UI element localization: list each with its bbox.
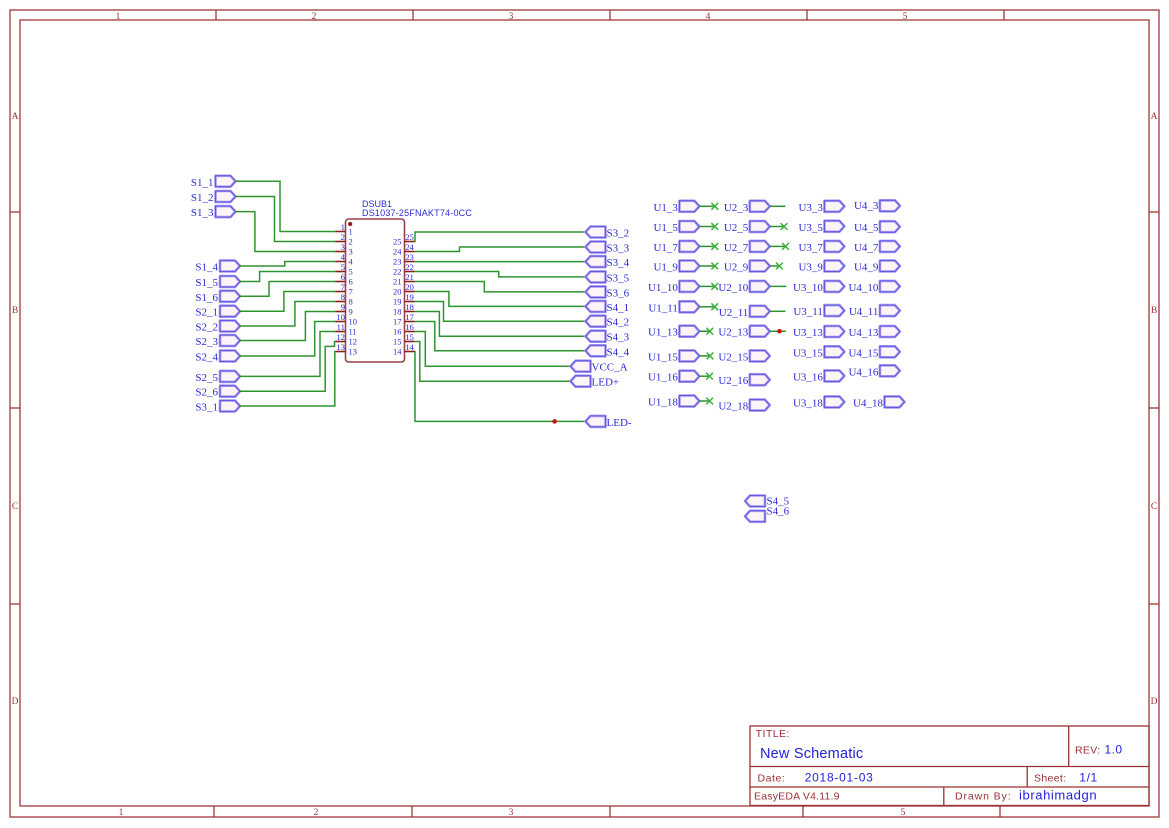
svg-text:S4_4: S4_4	[607, 346, 630, 358]
net flag U2_11	[719, 306, 770, 319]
svg-text:U4_7: U4_7	[854, 242, 879, 254]
svg-text:4: 4	[706, 12, 711, 22]
svg-text:S2_5: S2_5	[195, 372, 218, 384]
net flag LED-	[586, 416, 632, 429]
net flag S1_1	[191, 176, 236, 189]
svg-text:S2_4: S2_4	[195, 352, 218, 364]
svg-text:D: D	[1151, 697, 1158, 707]
wire U2_7 stub	[770, 245, 786, 247]
svg-text:U4_16: U4_16	[848, 366, 878, 378]
net flag U2_18	[718, 400, 769, 413]
svg-text:U3_7: U3_7	[798, 242, 823, 254]
svg-text:U3_5: U3_5	[798, 222, 823, 234]
net flag VCC_A	[571, 361, 628, 374]
no-connect flag U1_10	[711, 283, 718, 290]
wire U1_10 no-connect stub	[699, 285, 714, 287]
no-connect flag U1_18	[706, 398, 713, 405]
net flag U4_7	[854, 241, 900, 254]
svg-text:B: B	[1151, 306, 1157, 316]
net flag S1_2	[191, 191, 236, 204]
svg-text:17: 17	[393, 317, 402, 327]
net flag U4_15	[848, 346, 899, 359]
svg-text:19: 19	[393, 297, 402, 307]
wire S3_1 to pin 13	[240, 352, 336, 407]
net flag S4_2	[586, 316, 630, 329]
net flag S2_3	[195, 335, 240, 348]
net flag U1_5	[653, 221, 699, 234]
svg-text:S3_5: S3_5	[607, 272, 630, 284]
svg-text:14: 14	[393, 347, 402, 357]
wire S2_6 to pin 12	[240, 342, 336, 392]
net flag U3_3	[798, 201, 844, 214]
wire pin 17 to S4_4	[415, 322, 586, 351]
svg-text:8: 8	[349, 297, 353, 307]
net flag U4_9	[854, 261, 900, 274]
svg-text:2: 2	[312, 12, 317, 22]
svg-text:10: 10	[336, 312, 345, 322]
net flag U1_9	[653, 261, 699, 274]
svg-text:S4_1: S4_1	[607, 302, 630, 314]
svg-text:U4_11: U4_11	[849, 306, 879, 318]
net flag LED+	[571, 376, 620, 389]
net flag U4_5	[854, 221, 900, 234]
svg-text:15: 15	[393, 337, 402, 347]
svg-text:U4_5: U4_5	[854, 222, 879, 234]
svg-text:D: D	[12, 697, 19, 707]
svg-text:1: 1	[341, 222, 345, 232]
svg-text:A: A	[1151, 112, 1158, 122]
net flag S3_4	[586, 256, 630, 269]
wire U1_16 no-connect stub	[699, 375, 709, 377]
wire pin 16 to VCC_A	[415, 332, 571, 367]
wire S1_3 to pin 3	[236, 212, 336, 252]
svg-text:1.0: 1.0	[1105, 743, 1123, 757]
DSUB1 pin 5	[336, 262, 353, 277]
DSUB1 pin 4	[336, 252, 354, 267]
svg-text:S4_2: S4_2	[607, 317, 630, 329]
no-connect flag U1_11	[711, 303, 718, 310]
title block	[750, 726, 1149, 806]
wire U2_3 stub	[770, 205, 786, 207]
svg-text:U1_9: U1_9	[653, 262, 678, 274]
wire U2_11 stub	[770, 310, 786, 312]
no-connect flag U2_5	[781, 223, 788, 230]
wire S1_6 to pin 6	[240, 282, 336, 297]
net flag U3_16	[793, 370, 844, 383]
svg-text:13: 13	[349, 347, 358, 357]
svg-text:U3_10: U3_10	[793, 282, 823, 294]
no-connect flag U1_16	[706, 373, 713, 380]
svg-text:U1_16: U1_16	[648, 372, 678, 384]
svg-text:B: B	[12, 306, 18, 316]
svg-text:5: 5	[903, 12, 908, 22]
net flag S3_3	[586, 242, 630, 255]
net flag S3_2	[586, 227, 630, 240]
svg-text:U3_16: U3_16	[793, 371, 823, 383]
svg-text:S3_6: S3_6	[607, 287, 630, 299]
net flag S4_3	[586, 331, 630, 344]
DSUB1 pin 10	[336, 312, 358, 327]
connector DSUB1	[346, 219, 405, 362]
svg-text:A: A	[12, 112, 19, 122]
svg-text:S1_6: S1_6	[195, 292, 218, 304]
svg-text:U2_9: U2_9	[724, 262, 749, 274]
svg-text:S2_1: S2_1	[195, 307, 218, 319]
DSUB1 pin 21	[393, 272, 415, 287]
svg-text:4: 4	[341, 252, 346, 262]
svg-text:2018-01-03: 2018-01-03	[805, 770, 874, 784]
net flag S4_4	[586, 345, 630, 358]
net flag S2_2	[195, 321, 240, 334]
wire pin 23 to S3_4	[415, 261, 586, 263]
svg-text:S2_6: S2_6	[195, 387, 218, 399]
net flag S2_4	[195, 351, 240, 364]
no-connect flag U1_13	[706, 328, 713, 335]
net flag S2_5	[195, 371, 240, 384]
svg-text:U1_11: U1_11	[648, 302, 678, 314]
wire S1_5 to pin 5	[240, 272, 336, 282]
net flag U3_9	[798, 261, 844, 274]
svg-text:2: 2	[341, 232, 345, 242]
wire U2_9 stub	[770, 265, 780, 267]
svg-text:U2_3: U2_3	[724, 202, 749, 214]
svg-text:25: 25	[405, 232, 414, 242]
wire S1_4 to pin 4	[240, 262, 336, 267]
svg-text:U1_10: U1_10	[648, 282, 678, 294]
net flag U2_13	[718, 326, 769, 339]
net flag U4_10	[848, 281, 899, 294]
wire pin 20 to S4_1	[415, 292, 586, 307]
DSUB1 pin 11	[336, 322, 357, 337]
no-connect flag U2_7	[782, 243, 789, 250]
net flag U2_3	[724, 201, 770, 214]
svg-text:U1_3: U1_3	[653, 202, 678, 214]
svg-text:U4_3: U4_3	[854, 200, 879, 212]
wire S1_2 to pin 2	[236, 197, 336, 242]
wire U2_5 stub	[770, 226, 784, 228]
wire U2_13 stub	[770, 330, 786, 332]
net flag U3_5	[798, 221, 844, 234]
net flag U1_3	[653, 201, 699, 214]
svg-text:5: 5	[901, 808, 906, 818]
svg-text:16: 16	[393, 327, 402, 337]
net flag U3_18	[793, 396, 844, 409]
svg-text:S1_4: S1_4	[195, 262, 218, 274]
svg-text:6: 6	[341, 272, 346, 282]
wire U1_15 no-connect stub	[699, 355, 710, 357]
svg-text:S1_2: S1_2	[191, 192, 214, 204]
svg-text:U3_13: U3_13	[793, 327, 823, 339]
DSUB1 pin 16	[393, 322, 415, 337]
svg-text:3: 3	[349, 247, 353, 257]
net flag U4_13	[848, 326, 899, 339]
svg-text:1/1: 1/1	[1079, 770, 1097, 784]
no-connect flag U1_5	[711, 223, 718, 230]
DSUB1 pin 8	[336, 292, 353, 307]
svg-text:10: 10	[349, 317, 358, 327]
svg-text:C: C	[1151, 502, 1157, 512]
svg-text:S4_3: S4_3	[607, 332, 630, 344]
svg-text:U4_10: U4_10	[848, 282, 878, 294]
svg-text:U3_18: U3_18	[793, 397, 823, 409]
svg-text:LED+: LED+	[592, 377, 620, 389]
svg-text:21: 21	[393, 277, 402, 287]
DSUB1 pin 23	[393, 252, 415, 267]
svg-text:3: 3	[341, 242, 345, 252]
svg-text:S3_3: S3_3	[607, 243, 630, 255]
svg-text:U3_9: U3_9	[798, 262, 823, 274]
wire U1_18 no-connect stub	[699, 400, 709, 402]
svg-text:S4_6: S4_6	[767, 506, 790, 518]
wire pin 21 to S3_6	[415, 282, 586, 292]
wire pin 25 to S3_2	[415, 232, 586, 242]
svg-text:9: 9	[341, 302, 345, 312]
svg-text:U1_15: U1_15	[648, 351, 678, 363]
svg-text:18: 18	[393, 307, 402, 317]
svg-text:U2_10: U2_10	[718, 282, 748, 294]
svg-text:20: 20	[405, 282, 414, 292]
wire S2_3 to pin 9	[240, 312, 336, 341]
svg-text:U2_7: U2_7	[724, 242, 749, 254]
svg-text:U2_13: U2_13	[718, 327, 748, 339]
svg-text:U2_18: U2_18	[718, 401, 748, 413]
svg-text:13: 13	[336, 342, 345, 352]
wire pin 24 to S3_3	[415, 247, 586, 252]
svg-text:S1_3: S1_3	[191, 207, 214, 219]
DSUB1 pin 22	[393, 262, 415, 277]
net flag U2_7	[724, 241, 770, 254]
svg-text:2: 2	[314, 808, 319, 818]
DSUB1 pin 1	[336, 222, 353, 237]
wire S2_4 to pin 10	[240, 322, 336, 357]
svg-text:U3_3: U3_3	[798, 202, 823, 214]
svg-text:U1_13: U1_13	[648, 327, 678, 339]
no-connect flag U1_7	[711, 243, 718, 250]
net flag U1_11	[648, 301, 699, 314]
no-connect flag U1_9	[711, 263, 718, 270]
net flag U1_16	[648, 371, 699, 384]
svg-text:9: 9	[349, 307, 353, 317]
svg-text:U4_13: U4_13	[848, 327, 878, 339]
svg-text:14: 14	[405, 342, 414, 352]
svg-text:Drawn By:: Drawn By:	[955, 790, 1012, 802]
svg-text:1: 1	[116, 12, 121, 22]
no-connect flag U1_3	[711, 203, 718, 210]
svg-text:Sheet:: Sheet:	[1034, 772, 1066, 784]
wire U1_9 no-connect stub	[699, 265, 714, 267]
net flag S4_6	[745, 506, 790, 522]
svg-text:5: 5	[349, 267, 353, 277]
DSUB1 pin 20	[393, 282, 415, 297]
DSUB1 pin 13	[336, 342, 358, 357]
svg-text:Date:: Date:	[758, 772, 786, 784]
DSUB1 pin-1 marker dot	[348, 222, 352, 226]
svg-text:16: 16	[405, 322, 414, 332]
net flag U1_13	[648, 326, 699, 339]
net flag U1_15	[648, 350, 699, 363]
svg-text:U2_16: U2_16	[718, 375, 748, 387]
DSUB1 pin 17	[393, 312, 415, 327]
DSUB1 pin 7	[336, 282, 353, 297]
DSUB1 pin 25	[393, 232, 415, 247]
wire pin 22 to S3_5	[415, 272, 586, 277]
wire U1_13 no-connect stub	[699, 330, 709, 332]
svg-text:21: 21	[405, 272, 414, 282]
DSUB1 pin 15	[393, 332, 415, 347]
svg-text:12: 12	[336, 332, 345, 342]
net flag U3_15	[793, 346, 844, 359]
DSUB1 pin 6	[336, 272, 353, 287]
wire pin 18 to S4_3	[415, 312, 586, 337]
svg-text:22: 22	[393, 267, 402, 277]
net flag S1_4	[195, 261, 240, 274]
svg-text:U3_11: U3_11	[793, 306, 823, 318]
svg-text:1: 1	[119, 808, 124, 818]
net flag U4_18	[853, 396, 904, 409]
svg-text:25: 25	[393, 237, 402, 247]
DSUB1 pin 14	[393, 342, 415, 357]
svg-text:12: 12	[349, 337, 358, 347]
svg-text:24: 24	[405, 242, 414, 252]
svg-text:1: 1	[349, 227, 353, 237]
svg-text:3: 3	[509, 12, 514, 22]
wire pin 15 to LED+	[415, 342, 571, 382]
svg-text:REV:: REV:	[1075, 745, 1101, 757]
svg-text:VCC_A: VCC_A	[592, 362, 628, 374]
svg-text:3: 3	[509, 808, 514, 818]
svg-text:LED-: LED-	[607, 417, 632, 429]
net flag U2_9	[724, 261, 770, 274]
svg-text:U1_5: U1_5	[653, 222, 678, 234]
svg-text:EasyEDA V4.11.9: EasyEDA V4.11.9	[754, 790, 840, 802]
svg-text:S2_3: S2_3	[195, 336, 218, 348]
svg-text:S2_2: S2_2	[195, 322, 218, 334]
net flag S1_5	[195, 276, 240, 289]
net flag S3_1	[195, 401, 240, 414]
svg-text:U2_15: U2_15	[718, 351, 748, 363]
svg-text:TITLE:: TITLE:	[756, 728, 790, 740]
net flag U4_16	[848, 365, 899, 378]
DSUB1 pin 2	[336, 232, 353, 247]
net flag U2_5	[724, 221, 770, 234]
svg-text:22: 22	[405, 262, 414, 272]
net flag S4_5	[745, 496, 790, 508]
net flag U2_16	[718, 374, 769, 387]
wire S2_1 to pin 7	[240, 292, 336, 312]
wire U1_7 no-connect stub	[699, 245, 714, 247]
DSUB1 pin 19	[393, 292, 415, 307]
net flag S3_6	[586, 286, 630, 299]
svg-text:S1_1: S1_1	[191, 177, 214, 189]
svg-text:15: 15	[405, 332, 414, 342]
net flag U2_10	[718, 281, 769, 294]
svg-text:S3_1: S3_1	[195, 402, 218, 414]
net flag U4_3	[854, 200, 900, 212]
svg-text:U4_18: U4_18	[853, 397, 883, 409]
net flag U2_15	[718, 350, 769, 363]
net flag U3_7	[798, 241, 844, 254]
wire S1_1 to pin 1	[236, 181, 336, 231]
net flag S2_1	[195, 306, 240, 319]
svg-text:5: 5	[341, 262, 345, 272]
net flag U1_7	[653, 241, 699, 254]
junction dot on U2_13 wire	[777, 329, 782, 334]
svg-text:S3_2: S3_2	[607, 228, 630, 240]
wire pin 19 to S4_2	[415, 302, 586, 322]
svg-text:2: 2	[349, 237, 353, 247]
DSUB1 pin 9	[336, 302, 353, 317]
svg-text:18: 18	[405, 302, 414, 312]
svg-text:6: 6	[349, 277, 353, 287]
DSUB1 pin 3	[336, 242, 353, 257]
svg-text:23: 23	[393, 257, 402, 267]
svg-text:U1_7: U1_7	[653, 242, 678, 254]
wire U1_5 no-connect stub	[699, 226, 714, 228]
svg-text:11: 11	[337, 322, 345, 332]
svg-text:17: 17	[405, 312, 414, 322]
net flag S1_3	[191, 206, 236, 219]
net flag S2_6	[195, 386, 240, 399]
net flag U3_10	[793, 281, 844, 294]
net flag U4_11	[849, 305, 900, 318]
svg-text:S1_5: S1_5	[195, 277, 218, 289]
svg-text:DS1037-25FNAKT74-0CC: DS1037-25FNAKT74-0CC	[362, 208, 472, 218]
DSUB1 pin 18	[393, 302, 415, 317]
wire S2_5 to pin 11	[240, 332, 336, 377]
svg-text:New Schematic: New Schematic	[760, 746, 863, 762]
svg-text:7: 7	[349, 287, 353, 297]
junction dot on LED- wire	[552, 419, 557, 424]
wire U1_11 no-connect stub	[699, 306, 714, 308]
svg-text:19: 19	[405, 292, 414, 302]
wire S2_2 to pin 8	[240, 302, 336, 327]
no-connect flag U1_15	[707, 353, 714, 360]
svg-text:S3_4: S3_4	[607, 257, 630, 269]
svg-text:7: 7	[341, 282, 346, 292]
svg-text:U4_15: U4_15	[848, 347, 878, 359]
net flag U3_11	[793, 305, 844, 318]
net flag S3_5	[586, 271, 630, 284]
svg-text:23: 23	[405, 252, 414, 262]
svg-text:U2_5: U2_5	[724, 222, 749, 234]
net flag U3_13	[793, 326, 844, 339]
wire U2_10 stub	[770, 285, 787, 287]
svg-text:U3_15: U3_15	[793, 347, 823, 359]
wire U1_3 no-connect stub	[699, 205, 714, 207]
net flag S4_1	[586, 301, 630, 314]
no-connect flag U2_9	[776, 263, 783, 270]
svg-text:U1_18: U1_18	[648, 397, 678, 409]
svg-text:8: 8	[341, 292, 346, 302]
wire pin 14 to LED-	[415, 352, 586, 422]
svg-text:20: 20	[393, 287, 402, 297]
svg-text:C: C	[12, 502, 18, 512]
net flag U1_18	[648, 396, 699, 409]
DSUB1 pin 12	[336, 332, 358, 347]
svg-text:11: 11	[349, 327, 357, 337]
svg-text:24: 24	[393, 247, 402, 257]
svg-text:U2_11: U2_11	[719, 307, 749, 319]
svg-text:U4_9: U4_9	[854, 262, 879, 274]
svg-text:ibrahimadgn: ibrahimadgn	[1019, 787, 1097, 802]
net flag U1_10	[648, 281, 699, 294]
net flag S1_6	[195, 291, 240, 304]
DSUB1 pin 24	[393, 242, 415, 257]
